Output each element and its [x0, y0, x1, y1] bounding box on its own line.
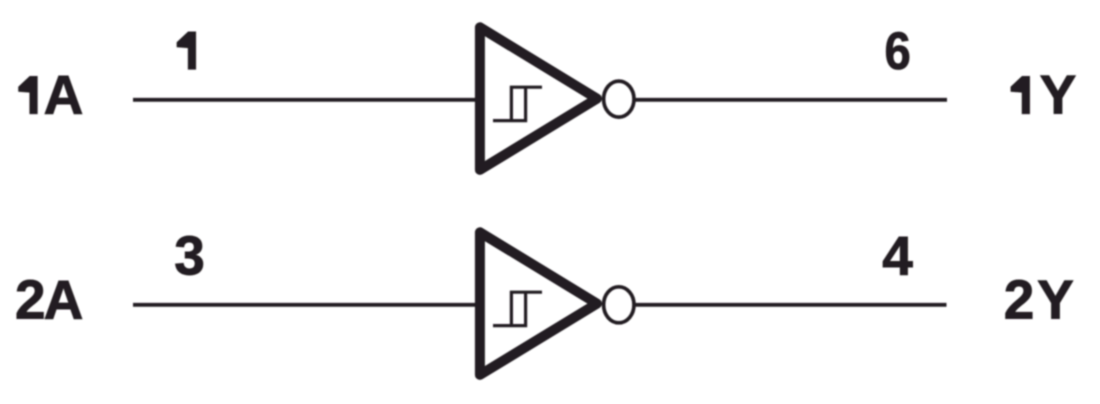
node 1Y output label [1011, 64, 1076, 126]
node 1A input label [19, 64, 84, 126]
svg-text:2: 2 [15, 269, 46, 331]
inverter U1B triangle [480, 232, 597, 375]
svg-text:A: A [44, 64, 84, 126]
node 2Y output label [1004, 269, 1074, 331]
wire input pin 3 to U1B [133, 303, 477, 307]
svg-text:2: 2 [1004, 269, 1035, 331]
hysteresis symbol U1A [493, 87, 542, 120]
inversion bubble U1A [604, 81, 634, 117]
inverter U1A triangle [480, 27, 597, 170]
wire input pin 1 to U1A [133, 98, 477, 102]
svg-text:3: 3 [174, 224, 205, 286]
wire output U1A to pin 6 [635, 98, 947, 102]
svg-text:A: A [44, 269, 84, 331]
svg-text:4: 4 [882, 224, 913, 286]
hysteresis symbol U1B [493, 292, 542, 325]
svg-text:6: 6 [885, 22, 911, 81]
svg-text:Y: Y [1040, 64, 1077, 126]
node 2A input label [15, 269, 83, 331]
wire output U1B to pin 4 [635, 303, 947, 307]
pin number 1 [177, 32, 196, 69]
svg-text:Y: Y [1037, 269, 1074, 331]
inversion bubble U1B [604, 287, 634, 323]
